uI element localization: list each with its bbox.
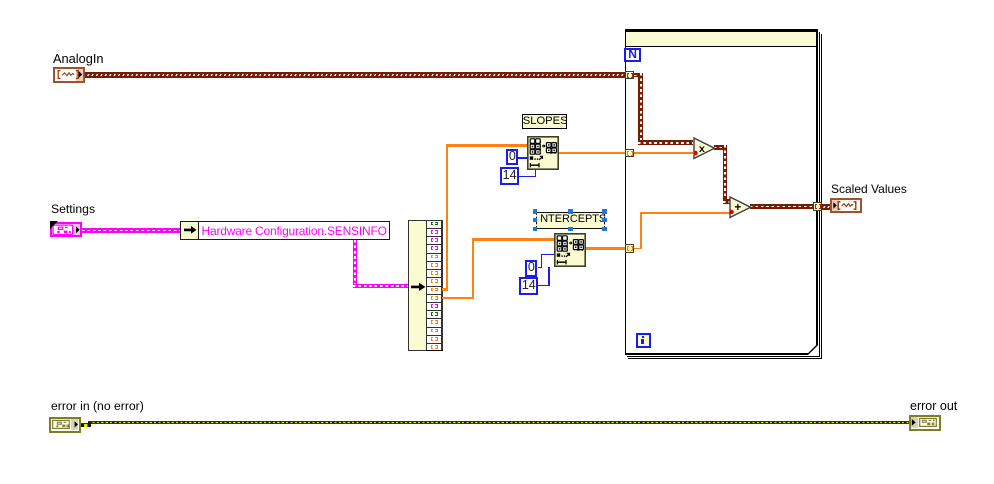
- svg-text:+: +: [735, 202, 742, 214]
- svg-text:x: x: [699, 143, 705, 155]
